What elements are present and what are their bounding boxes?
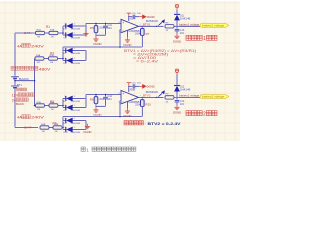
wire - switch to R9	[157, 96, 164, 99]
svg-text:+: +	[122, 21, 124, 25]
annotation battery pack 1 detect	[186, 35, 191, 40]
svg-text:1: 1	[203, 36, 206, 42]
port battery2 voltage	[200, 95, 229, 99]
wire - R1b to clamp node	[58, 32, 63, 35]
svg-text:BACK: BACK	[19, 77, 29, 81]
wire - battery positive bus	[14, 33, 17, 77]
svg-text:20K: 20K	[135, 32, 142, 35]
svg-text:DGND: DGND	[84, 131, 92, 134]
resistor R3b 1M	[49, 57, 58, 60]
diode D9 1N4148	[63, 119, 66, 122]
svg-text:R2B: R2B	[50, 102, 55, 104]
svg-text:1N4148: 1N4148	[71, 110, 81, 112]
svg-text:R2A: R2A	[37, 101, 42, 104]
svg-text:4A: 4A	[17, 43, 22, 48]
ground - clamp A	[83, 31, 88, 36]
wire - between R4a R4b	[49, 126, 53, 129]
power - U5B pin8 +5V	[128, 86, 131, 92]
battery BT1 cell 2	[11, 85, 19, 88]
resistor R7 20K feedback	[141, 26, 144, 28]
diode D8 1N4148	[63, 106, 66, 109]
svg-text:DGND: DGND	[173, 40, 181, 43]
svg-text:R10: R10	[145, 102, 151, 106]
wire - BAT+ feed	[15, 32, 36, 35]
svg-text:R1B: R1B	[50, 29, 55, 31]
capacitor C13 104	[176, 26, 179, 29]
svg-text:DGND: DGND	[124, 44, 132, 47]
wire - clamp bus right	[85, 95, 88, 108]
wire - clamp bus right	[85, 51, 88, 61]
svg-text:BTV1: BTV1	[143, 23, 151, 27]
resistor R2a 1M	[36, 104, 45, 107]
resistor R2b 1M	[49, 104, 58, 107]
diode D6 1N4148	[63, 34, 66, 37]
diode D11 1N4148 to +5V	[176, 20, 179, 26]
op-amp U5A LM358	[121, 19, 139, 32]
svg-text:104: 104	[108, 98, 113, 101]
power port DGND (arrow)	[139, 15, 146, 19]
resistor R3a 1M	[35, 57, 44, 60]
wire - clamp bus right	[85, 23, 88, 35]
resistor R9 1K	[165, 96, 174, 99]
resistor R4a 1M	[40, 126, 49, 129]
svg-text:1M: 1M	[37, 37, 40, 39]
wire - BAT- feed	[15, 126, 38, 129]
svg-text:1M: 1M	[37, 109, 40, 111]
ground - R8 DGND	[93, 107, 98, 112]
wire - between R2a R2b	[45, 104, 50, 107]
svg-text:BTV2 = 0-2.4V: BTV2 = 0-2.4V	[148, 122, 182, 126]
capacitor C15 104 decoupling	[129, 85, 133, 88]
svg-text:4A: 4A	[17, 115, 22, 120]
svg-text:104: 104	[108, 27, 113, 30]
op-amp U5B LM358	[121, 90, 139, 103]
capacitor C10 104 decoupling	[129, 15, 133, 18]
wire - battery middle	[14, 79, 17, 86]
svg-text:1M: 1M	[51, 109, 54, 111]
svg-text:1N4148: 1N4148	[71, 101, 81, 103]
wire - between R3a R3b	[44, 57, 49, 60]
annotation max charge voltage 480V	[11, 66, 15, 70]
svg-text:20K: 20K	[135, 103, 142, 106]
svg-text:B0540W: B0540W	[146, 20, 159, 23]
resistor R1b 1M	[49, 31, 58, 34]
svg-text:1M: 1M	[50, 62, 53, 64]
wire - BACK feed lower	[35, 104, 37, 107]
wire - R2b to clamp node	[58, 104, 63, 107]
power +5V for D11	[175, 4, 178, 10]
resistor R8 20K	[95, 95, 98, 97]
svg-text:R3B: R3B	[50, 55, 55, 57]
wire - R4b to clamp node	[62, 126, 63, 129]
ground - U5A pin4	[126, 31, 129, 38]
svg-text:1N4148: 1N4148	[71, 37, 81, 39]
svg-text:DGND: DGND	[147, 15, 155, 19]
resistor R1a 1M	[36, 31, 45, 34]
svg-text:R4B: R4B	[54, 124, 59, 126]
capacitor C11 104	[104, 23, 107, 26]
svg-text:R1A: R1A	[37, 28, 42, 31]
svg-text:1N4148: 1N4148	[71, 123, 81, 125]
svg-text:battery1 voltage: battery1 voltage	[202, 24, 225, 28]
power - U5A pin8 +5V	[128, 17, 131, 21]
power port DGND (arrow) lower	[139, 85, 146, 89]
svg-text:1N4148: 1N4148	[71, 63, 81, 65]
svg-text:1N4148: 1N4148	[71, 53, 81, 55]
svg-text:480V: 480V	[39, 67, 51, 72]
svg-text:2: 2	[203, 112, 206, 118]
annotation same calculation BTV2	[124, 121, 128, 125]
svg-text::: :	[145, 121, 146, 126]
wire - battery negative bus	[14, 88, 17, 128]
ground - C14 DGND	[174, 105, 179, 110]
svg-text:= 0~2.4V: = 0~2.4V	[136, 60, 159, 64]
wire - R9 to node	[174, 96, 200, 99]
svg-text:12V: 12V	[12, 94, 19, 98]
ground - C13 DGND	[174, 34, 179, 39]
power +5V for D12	[175, 69, 178, 75]
wire - between R1a R1b	[45, 32, 50, 35]
svg-text:24: 24	[12, 99, 16, 103]
ground - clamp C	[85, 124, 90, 129]
capacitor C12 104	[104, 95, 107, 98]
svg-text:+: +	[122, 92, 124, 96]
svg-text:1N4148: 1N4148	[180, 18, 191, 21]
svg-text:1M: 1M	[42, 131, 45, 133]
svg-text:R7: R7	[146, 32, 150, 36]
test switch on output	[158, 22, 163, 26]
svg-text:battery2 voltage: battery2 voltage	[179, 94, 200, 98]
svg-text:DGND: DGND	[173, 112, 181, 115]
svg-text:1M: 1M	[37, 62, 40, 64]
svg-text:BT1: BT1	[17, 83, 22, 87]
svg-text:battery1 voltage: battery1 voltage	[179, 23, 200, 27]
svg-text:BAT+: BAT+	[24, 32, 33, 35]
resistor R10 20K feedback	[141, 97, 144, 99]
svg-text:240V: 240V	[31, 43, 44, 48]
svg-text:1N4148: 1N4148	[180, 89, 191, 92]
diode D10 1N4148	[63, 128, 66, 131]
svg-text:BACK: BACK	[16, 103, 24, 106]
test switch on output lower	[158, 93, 163, 97]
wire - clamp bus left	[62, 99, 65, 108]
resistor R4b 1M	[53, 126, 62, 129]
wire - clamp bus left	[62, 26, 65, 35]
diode D7 1N4148	[63, 97, 66, 100]
svg-text:R3A: R3A	[36, 54, 41, 57]
resistor R5 20K	[95, 23, 98, 25]
wire - U5A output	[139, 25, 157, 28]
ground - R5 DGND	[93, 36, 98, 41]
annotation battery pack 2 detect	[186, 111, 191, 116]
svg-text:DGND: DGND	[124, 115, 132, 118]
wire - clamp A to opamp noninverting	[86, 22, 121, 25]
diode D7 1N4148	[63, 49, 66, 52]
wire - clamp bus left	[62, 51, 65, 61]
capacitor C14 104	[176, 97, 179, 100]
diode D5 1N4148	[63, 25, 66, 28]
svg-text:1N4148: 1N4148	[71, 28, 81, 30]
wire - R3b to clamp node	[58, 57, 64, 60]
port battery1 voltage	[200, 23, 229, 27]
svg-text:1M: 1M	[51, 37, 54, 39]
wire - center tap vertical	[33, 59, 36, 106]
svg-text:1N4148: 1N4148	[71, 132, 81, 134]
wire - opamp B inverting leg	[120, 99, 121, 102]
diode D8 1N4148	[63, 59, 66, 62]
svg-text:battery2 voltage: battery2 voltage	[202, 95, 225, 99]
svg-text:104: 104	[180, 103, 185, 106]
diode D12 1N4148 to +5V	[176, 91, 179, 97]
wire - switch to R6	[157, 25, 164, 28]
wire - opamp A inverting leg	[120, 28, 121, 31]
svg-text:1M: 1M	[55, 131, 58, 133]
resistor R6 1K	[165, 25, 174, 28]
svg-text:BTV2: BTV2	[143, 94, 151, 98]
svg-text:BAT-: BAT-	[24, 127, 33, 130]
wire - clamp bus left	[62, 121, 65, 130]
ground - U5B pin4	[126, 102, 129, 109]
svg-text:240V: 240V	[31, 115, 44, 120]
wire - BACK feed	[35, 57, 37, 60]
caption figure 1	[81, 147, 85, 151]
svg-text:104: 104	[180, 32, 185, 35]
schematic sheet background	[0, 0, 240, 157]
svg-text:R4A: R4A	[41, 123, 46, 126]
wire - clamp bus right	[85, 121, 88, 130]
label battery pack (chinese)	[17, 88, 20, 91]
svg-text:R5: R5	[90, 26, 94, 30]
wire - R6 to node	[174, 25, 200, 28]
svg-text:R8: R8	[90, 97, 94, 101]
wire - U5B output	[139, 96, 157, 99]
wire - clamp B2 to opamp2 noninverting	[86, 93, 121, 96]
svg-text:DGND: DGND	[147, 84, 155, 88]
svg-text:B0540W: B0540W	[146, 91, 159, 94]
battery BT1 cell 1	[11, 76, 19, 79]
wire - center tap BACK	[15, 79, 35, 82]
